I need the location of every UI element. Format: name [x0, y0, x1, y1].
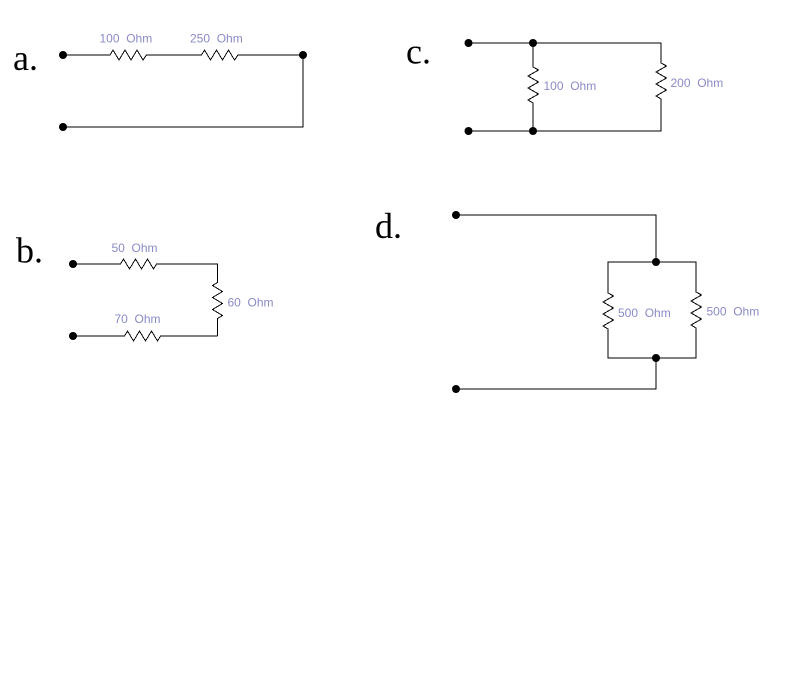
svg-text:b.: b. — [16, 231, 43, 271]
svg-text:250 Ohm: 250 Ohm — [190, 32, 243, 46]
svg-text:200 Ohm: 200 Ohm — [671, 76, 724, 90]
svg-text:c.: c. — [406, 32, 431, 72]
svg-text:100 Ohm: 100 Ohm — [100, 32, 153, 46]
svg-text:500 Ohm: 500 Ohm — [707, 305, 760, 319]
svg-text:d.: d. — [375, 206, 402, 246]
svg-text:100 Ohm: 100 Ohm — [544, 79, 597, 93]
svg-text:50 Ohm: 50 Ohm — [112, 241, 158, 255]
svg-text:60 Ohm: 60 Ohm — [228, 296, 274, 310]
svg-text:a.: a. — [13, 38, 38, 78]
svg-text:500 Ohm: 500 Ohm — [618, 306, 671, 320]
svg-text:70 Ohm: 70 Ohm — [115, 312, 161, 326]
